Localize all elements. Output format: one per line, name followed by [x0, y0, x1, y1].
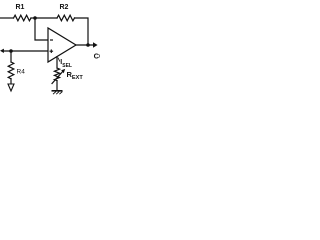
- wire R4 to open arrow: [10, 79, 12, 84]
- resistor R1: [14, 15, 32, 21]
- svg-text:R4: R4: [17, 69, 26, 76]
- node A junction: [33, 16, 37, 20]
- svg-text:R1: R1: [16, 4, 25, 11]
- wire REXT to ground: [56, 81, 58, 91]
- output wire: [76, 44, 94, 46]
- svg-text:CO: CO: [94, 51, 100, 60]
- resistor REXT zigzag: [54, 68, 59, 81]
- wire feedback: R2 to corner to output node: [75, 18, 89, 45]
- pin ISEL wire from op-amp bottom edge: [56, 57, 58, 68]
- op-amp minus sign: [50, 39, 53, 40]
- resistor REXT variable arrow shaft: [52, 71, 64, 84]
- svg-text:R2: R2: [60, 4, 69, 11]
- wire non-inverting input: [3, 50, 48, 52]
- op-amp plus sign: [50, 49, 54, 53]
- arrowhead output (right): [93, 42, 98, 47]
- open arrow below R4 (to negative supply): [8, 84, 14, 91]
- wire inverting input from node A: [35, 18, 48, 40]
- node C junction (output): [86, 43, 90, 47]
- resistor R2: [57, 15, 75, 21]
- op-amp U1: [48, 28, 76, 62]
- arrowhead REXT variable arrow: [61, 69, 65, 73]
- wire input to R1: [0, 17, 14, 19]
- node B junction: [9, 49, 13, 53]
- ground: [52, 91, 63, 94]
- wire node B down to R4: [10, 51, 12, 62]
- arrowhead non-inverting input (left): [0, 49, 4, 53]
- wire node A to R2: [35, 17, 57, 19]
- resistor R4: [8, 62, 14, 79]
- arrowhead ISEL current (down): [58, 58, 60, 62]
- wire R1 to node A: [31, 17, 35, 19]
